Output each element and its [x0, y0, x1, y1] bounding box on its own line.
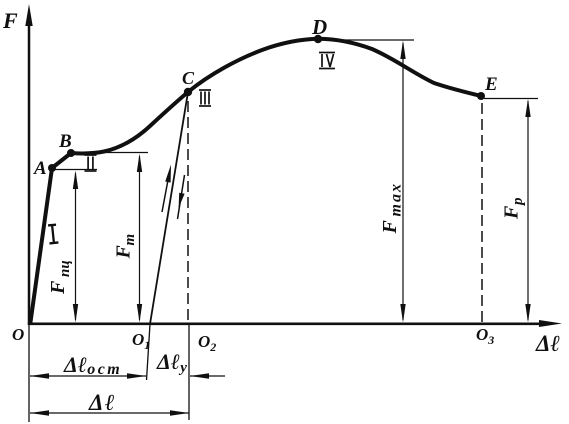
- point E: [477, 92, 485, 100]
- svg-text:A: A: [33, 158, 47, 179]
- svg-text:B: B: [58, 131, 72, 152]
- y-axis F: [25, 4, 32, 325]
- svg-text:O3: O3: [476, 325, 494, 347]
- extension of O1 line below axis: [147, 324, 151, 380]
- reference line at level D (Fmax): [326, 39, 414, 41]
- svg-text:р: р: [510, 197, 526, 207]
- dimension Δl ост: [30, 373, 146, 379]
- label Fmax (rotated): [379, 182, 405, 234]
- svg-text:E: E: [484, 74, 498, 95]
- svg-text:Δℓ: Δℓ: [535, 331, 560, 356]
- reference line at level B (Fт): [71, 152, 148, 154]
- svg-text:F: F: [379, 220, 401, 235]
- svg-text:O: O: [12, 325, 24, 344]
- svg-text:пц: пц: [57, 260, 73, 277]
- unload arrow (down): [178, 175, 185, 219]
- reference line at level A (Fпц): [52, 169, 97, 171]
- svg-text:Δℓост: Δℓост: [63, 352, 122, 378]
- point C: [184, 88, 192, 96]
- unloading line C to O1: [150, 92, 188, 324]
- dashed line C to O2: [187, 101, 189, 322]
- svg-text:O2: O2: [198, 332, 216, 354]
- svg-text:O1: O1: [132, 330, 150, 352]
- dimension arrow Fр: [525, 99, 530, 323]
- svg-text:F: F: [501, 205, 523, 220]
- point D: [314, 35, 322, 43]
- roman numeral IV: [319, 53, 335, 69]
- dimension arrow Fт: [137, 154, 142, 323]
- label Fт (rotated): [113, 234, 139, 260]
- svg-text:C: C: [182, 68, 195, 88]
- svg-text:F: F: [113, 245, 135, 260]
- svg-text:max: max: [388, 182, 405, 216]
- svg-text:Δℓу: Δℓу: [156, 349, 187, 376]
- roman numeral III: [199, 90, 211, 106]
- svg-text:т: т: [122, 234, 138, 246]
- point B: [67, 149, 75, 157]
- label Fпц (rotated): [47, 260, 73, 295]
- dimension arrow Fmax: [400, 41, 405, 323]
- roman numeral II: [85, 155, 97, 171]
- x-axis Δl: [28, 320, 562, 327]
- svg-text:D: D: [311, 15, 327, 39]
- label Fр (rotated): [501, 197, 527, 220]
- svg-text:Δℓ: Δℓ: [88, 390, 116, 415]
- svg-text:F: F: [2, 8, 18, 33]
- main curve O-A-B-C-D-E: [31, 39, 482, 322]
- dimension arrow Fпц: [73, 171, 78, 323]
- O2 extension line below axis: [188, 324, 190, 420]
- dimension Δl: [30, 410, 189, 416]
- point A: [48, 164, 56, 172]
- dimension arrow Δl у (external, pointing left): [190, 373, 225, 379]
- reference line at level E (Fр): [484, 98, 538, 100]
- svg-text:F: F: [47, 280, 69, 295]
- reload arrow (up): [162, 165, 171, 213]
- dashed line E to O3: [481, 103, 483, 322]
- roman numeral I (rotated, on segment OA): [48, 225, 59, 244]
- extension line below origin: [28, 324, 30, 422]
